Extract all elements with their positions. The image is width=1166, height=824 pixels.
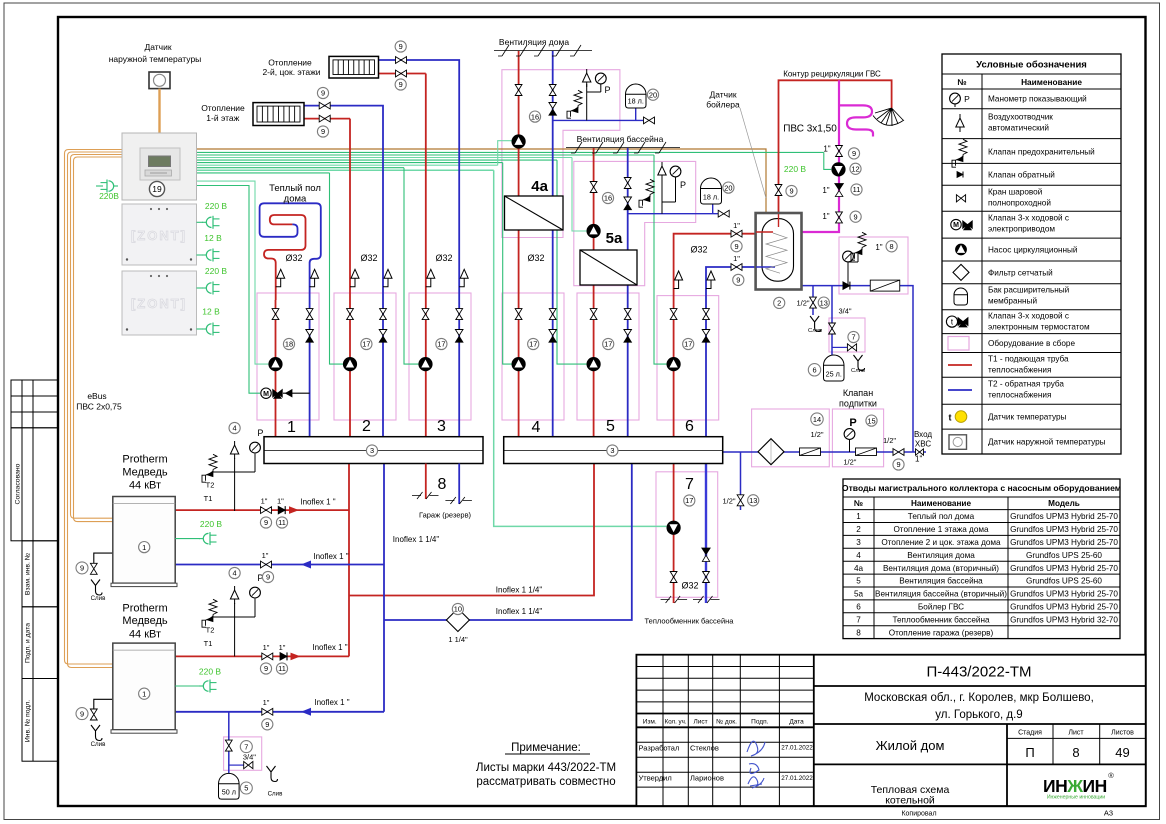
svg-text:№ док.: № док. xyxy=(716,719,737,726)
vent pool 5a assembly box xyxy=(574,161,696,285)
legend icon Т2 xyxy=(948,389,972,391)
check valve branch 6 xyxy=(702,330,710,336)
drain valve 4a xyxy=(644,117,655,124)
valve boiler feed 3/4 xyxy=(829,323,836,334)
svg-text:№: № xyxy=(854,499,863,508)
pipe make-up line to collector xyxy=(723,451,926,453)
svg-text:4а: 4а xyxy=(854,564,864,573)
svg-text:Бак расширительный: Бак расширительный xyxy=(988,286,1069,295)
svg-text:5: 5 xyxy=(856,577,861,586)
pipe T1 vent house secondary xyxy=(518,51,520,196)
svg-text:1: 1 xyxy=(856,512,861,521)
branch 4 assembly box xyxy=(502,293,564,420)
svg-text:Московская обл., г. Королев, м: Московская обл., г. Королев, мкр Болшево… xyxy=(864,692,1094,704)
pipe T2 branch 7 riser pool heat exchanger xyxy=(705,464,707,604)
branch 7 assembly box xyxy=(656,472,718,598)
valve on branch 5 supply xyxy=(590,309,597,320)
svg-text:4: 4 xyxy=(233,569,237,578)
svg-text:50 л: 50 л xyxy=(222,788,236,797)
svg-text:1": 1" xyxy=(915,455,922,464)
pipe cold water boiler feed xyxy=(782,286,913,452)
svg-text:9: 9 xyxy=(854,212,858,221)
green wire to boiler 1 plug xyxy=(96,185,103,187)
svg-text:220 В: 220 В xyxy=(784,164,807,174)
svg-text:Утвердил: Утвердил xyxy=(639,774,672,783)
valve on branch 6 supply xyxy=(670,309,677,320)
valve boiler hot in xyxy=(731,230,742,237)
svg-text:Воздухоотводчик: Воздухоотводчик xyxy=(988,113,1053,122)
svg-text:t: t xyxy=(949,413,952,423)
pipe make-up drain with valve 13 xyxy=(740,452,742,510)
valve on branch 4 supply xyxy=(515,309,522,320)
svg-text:бойлера: бойлера xyxy=(706,100,740,110)
storage tank 50l xyxy=(219,773,240,799)
svg-text:Отводы магистрального коллекто: Отводы магистрального коллектора с насос… xyxy=(842,483,1121,493)
valve on branch 3 return xyxy=(456,309,463,320)
svg-text:1/2": 1/2" xyxy=(722,496,735,505)
svg-text:7: 7 xyxy=(851,333,855,342)
svg-text:Inoflex 1 ": Inoflex 1 " xyxy=(313,552,348,561)
svg-text:Датчик температуры: Датчик температуры xyxy=(988,413,1067,422)
svg-text:Взам. инв. №: Взам. инв. № xyxy=(25,553,32,595)
svg-text:Вентиляция бассейна: Вентиляция бассейна xyxy=(899,577,983,586)
svg-text:автоматический: автоматический xyxy=(988,124,1049,133)
pipe T2 vent pool secondary xyxy=(627,148,629,250)
svg-text:Ø32: Ø32 xyxy=(360,253,377,263)
boiler 2 drain valve xyxy=(90,709,97,720)
pipe T1 boiler supply riser xyxy=(348,464,350,657)
svg-text:ул. Горького, д.9: ул. Горького, д.9 xyxy=(935,709,1022,721)
valve boiler return out xyxy=(731,264,742,271)
svg-text:Листов: Листов xyxy=(1111,730,1134,737)
pipe T1 boiler 2 supply xyxy=(175,655,349,657)
svg-text:Теплый пол: Теплый пол xyxy=(269,183,321,194)
svg-text:Т1: Т1 xyxy=(204,639,213,648)
svg-text:17: 17 xyxy=(529,340,537,349)
svg-text:Датчик наружной температуры: Датчик наружной температуры xyxy=(988,438,1106,447)
pump branch 5 xyxy=(587,358,600,371)
green wire drop to pump 12 xyxy=(824,152,831,169)
svg-text:®: ® xyxy=(1108,771,1114,780)
svg-text:19: 19 xyxy=(152,184,162,194)
svg-text:Grundfos UPM3 Hybrid 25-70: Grundfos UPM3 Hybrid 25-70 xyxy=(1010,538,1118,547)
pipe T2 floor heating coil xyxy=(260,203,321,300)
branch 3 assembly box xyxy=(409,293,471,420)
legend icon клапан обратный xyxy=(957,172,963,178)
legend icon бак расширительный xyxy=(954,288,968,305)
collector bar left xyxy=(264,437,483,464)
vent house duct symbol xyxy=(494,50,592,52)
expansion tank 25l xyxy=(824,355,845,381)
check valve 4a xyxy=(549,103,557,109)
svg-text:Стеклов: Стеклов xyxy=(690,744,719,753)
svg-text:подпитки: подпитки xyxy=(839,399,877,409)
svg-text:4: 4 xyxy=(233,424,237,433)
valve on branch 3 supply xyxy=(422,309,429,320)
branch 7 internals xyxy=(667,521,680,534)
svg-text:Бойлер ГВС: Бойлер ГВС xyxy=(918,603,964,612)
pipe T1 radiator 2nd floor supply xyxy=(379,73,426,75)
svg-text:17: 17 xyxy=(362,340,370,349)
branch 1 assembly box xyxy=(257,293,319,420)
pipe T1 branch 6 riser to DHW boiler xyxy=(674,234,756,437)
svg-text:10: 10 xyxy=(454,605,462,614)
valve 4a return xyxy=(549,85,556,96)
svg-text:Клапан: Клапан xyxy=(843,388,873,398)
svg-text:Protherm: Protherm xyxy=(122,454,167,466)
check valve branch 1 xyxy=(306,330,314,336)
valve boiler 2 return xyxy=(262,708,273,715)
svg-text:11: 11 xyxy=(278,518,286,527)
svg-text:1/2": 1/2" xyxy=(843,458,856,467)
svg-text:Grundfos UPM3 Hybrid 25-70: Grundfos UPM3 Hybrid 25-70 xyxy=(1010,603,1118,612)
svg-text:8: 8 xyxy=(1072,745,1079,760)
heat exchanger 4a xyxy=(505,196,564,230)
svg-text:Клапан обратный: Клапан обратный xyxy=(988,171,1055,180)
flow arrows branch 6 xyxy=(675,271,683,280)
svg-text:P: P xyxy=(604,85,610,95)
svg-text:9: 9 xyxy=(80,709,84,718)
svg-text:Лист: Лист xyxy=(1068,730,1084,737)
safety group boiler 2 xyxy=(234,603,236,656)
make-up filter group 14 box xyxy=(752,409,830,467)
svg-text:Вентиляция дома: Вентиляция дома xyxy=(499,37,569,47)
svg-text:1": 1" xyxy=(823,145,830,154)
svg-text:наружной температуры: наружной температуры xyxy=(109,54,202,64)
svg-text:электроприводом: электроприводом xyxy=(988,225,1055,234)
svg-text:П-443/2022-ТМ: П-443/2022-ТМ xyxy=(927,664,1032,681)
drain group on boiler 2 return xyxy=(228,712,230,774)
vent house 4a assembly box xyxy=(502,70,620,238)
valve on branch 1 return xyxy=(306,309,313,320)
svg-text:1": 1" xyxy=(822,186,829,195)
svg-text:220В: 220В xyxy=(99,191,119,201)
branch 6 assembly box xyxy=(657,296,719,420)
DHW boiler tank xyxy=(756,213,802,290)
3-way valve with drive branch 1 xyxy=(261,388,271,398)
legend icon клапан предохранительный xyxy=(959,139,967,157)
svg-text:Ø32: Ø32 xyxy=(681,581,698,591)
svg-text:2: 2 xyxy=(856,525,861,534)
svg-text:ХВС: ХВС xyxy=(915,440,931,449)
svg-text:теплоснабжения: теплоснабжения xyxy=(988,366,1051,375)
svg-text:M: M xyxy=(953,222,959,229)
valve on branch 1 supply xyxy=(272,309,279,320)
svg-text:7: 7 xyxy=(856,615,861,624)
svg-text:Отопление гаража (резерв): Отопление гаража (резерв) xyxy=(889,628,994,637)
pipe T2 branch 6 riser to DHW boiler xyxy=(706,267,756,437)
svg-text:1": 1" xyxy=(733,254,740,263)
svg-text:Оборудование в сборе: Оборудование в сборе xyxy=(988,339,1075,348)
svg-text:12 В: 12 В xyxy=(202,307,220,317)
svg-text:220 В: 220 В xyxy=(200,519,223,529)
svg-text:Отопление 1 этажа дома: Отопление 1 этажа дома xyxy=(893,525,989,534)
svg-text:16: 16 xyxy=(531,112,539,121)
valve DHW top xyxy=(836,146,843,157)
legend icon оборудование в сборе xyxy=(948,337,969,351)
svg-text:Ø32: Ø32 xyxy=(690,245,707,255)
pipe 4a expansion line xyxy=(553,119,644,121)
svg-text:8: 8 xyxy=(856,628,861,637)
collector bar right xyxy=(504,437,723,464)
svg-text:1: 1 xyxy=(142,543,146,552)
pipe T2 branch 5 riser xyxy=(627,285,629,437)
svg-text:5а: 5а xyxy=(854,590,864,599)
legend icon датчик наружной температуры xyxy=(949,435,967,450)
drain valve group 7 box xyxy=(224,737,262,770)
svg-text:14: 14 xyxy=(813,415,821,424)
svg-text:4: 4 xyxy=(856,551,861,560)
make-up gauge group 15 xyxy=(849,440,851,452)
filter 10 on return xyxy=(446,609,469,632)
svg-text:1-й этаж: 1-й этаж xyxy=(206,113,239,123)
svg-text:ПВС 3х1,50: ПВС 3х1,50 xyxy=(783,124,837,135)
boiler 2 drain pipe xyxy=(94,699,113,709)
safety group boiler 1 xyxy=(234,458,236,511)
pipe T2 radiator 2nd floor return xyxy=(379,60,460,437)
svg-text:12 В: 12 В xyxy=(204,233,222,243)
expansion tank 18l vent house xyxy=(626,84,647,108)
svg-text:25 л.: 25 л. xyxy=(826,370,842,379)
pipe T2 vent house secondary xyxy=(552,51,554,196)
svg-text:4a: 4a xyxy=(531,178,548,195)
svg-text:Манометр показывающий: Манометр показывающий xyxy=(988,95,1087,104)
sensor circle 16 vent pool xyxy=(602,192,613,203)
svg-text:Grundfos UPM3 Hybrid 25-70: Grundfos UPM3 Hybrid 25-70 xyxy=(1010,590,1118,599)
svg-text:9: 9 xyxy=(264,518,268,527)
svg-text:Т2: Т2 xyxy=(206,626,215,635)
pipe T1 branch 4 riser xyxy=(518,230,520,437)
svg-text:49: 49 xyxy=(1115,745,1129,760)
svg-text:ИНЖИН: ИНЖИН xyxy=(1043,776,1107,796)
green wire drop to pump 3 xyxy=(404,168,419,364)
svg-text:теплоснабжения: теплоснабжения xyxy=(988,391,1051,400)
svg-text:Кран шаровой: Кран шаровой xyxy=(988,188,1042,197)
pump branch 3 xyxy=(419,358,432,371)
pipe T1 floor heating coil xyxy=(264,215,306,300)
svg-text:1": 1" xyxy=(279,643,286,652)
svg-text:P: P xyxy=(964,94,970,104)
green wire drop to pump 5a xyxy=(572,158,587,232)
pipe T2 boiler 1 return xyxy=(175,564,384,566)
svg-text:11: 11 xyxy=(278,664,286,673)
svg-text:[ZONT]: [ZONT] xyxy=(131,228,187,243)
svg-text:дома: дома xyxy=(284,194,307,205)
svg-text:Теплообменник бассейна: Теплообменник бассейна xyxy=(645,617,735,626)
legend icon клапан 3-х ходовой с электроприводом xyxy=(951,219,961,229)
svg-text:P: P xyxy=(257,428,263,438)
svg-text:Вентиляция бассейна (вторичный: Вентиляция бассейна (вторичный) xyxy=(875,590,1007,599)
svg-text:Inoflex 1 ": Inoflex 1 " xyxy=(314,698,349,707)
svg-text:8: 8 xyxy=(890,242,894,251)
svg-text:13: 13 xyxy=(820,298,828,307)
svg-text:Модель: Модель xyxy=(1048,499,1080,508)
svg-text:1": 1" xyxy=(261,497,268,506)
svg-text:1": 1" xyxy=(875,243,882,252)
heating cable loop ПВС xyxy=(839,105,873,136)
green wire drop to pump 7 xyxy=(494,170,667,526)
svg-text:[ZONT]: [ZONT] xyxy=(131,296,187,311)
svg-text:1": 1" xyxy=(733,221,740,230)
svg-text:Вентиляция бассейна: Вентиляция бассейна xyxy=(577,134,664,144)
svg-text:9: 9 xyxy=(399,42,403,51)
pipe DHW recirculation magenta xyxy=(802,80,840,232)
check valve 5a xyxy=(624,197,632,203)
make-up water filters xyxy=(758,439,784,465)
svg-text:Ø32: Ø32 xyxy=(285,253,302,263)
boiler sensor leader line xyxy=(740,108,766,198)
vent pool duct symbol xyxy=(566,147,680,149)
signatures xyxy=(747,741,765,773)
svg-text:9: 9 xyxy=(264,664,268,673)
svg-text:Согласовано: Согласовано xyxy=(15,463,22,504)
svg-text:5: 5 xyxy=(244,784,248,793)
make-up gauge group 15 box xyxy=(832,409,883,467)
valve radiator 1 return xyxy=(319,102,330,109)
sensor circle 17 branch 6 xyxy=(683,338,694,349)
green wire drop to pump 6 xyxy=(654,155,667,364)
svg-text:Т2: Т2 xyxy=(206,481,215,490)
svg-text:16: 16 xyxy=(604,194,612,203)
svg-text:Подп. и дата: Подп. и дата xyxy=(25,623,32,663)
svg-text:Отопление 2 и цок. этажа дома: Отопление 2 и цок. этажа дома xyxy=(881,538,1001,547)
svg-text:3/4": 3/4" xyxy=(838,307,851,316)
svg-text:9: 9 xyxy=(321,127,325,136)
valve DHW bottom xyxy=(836,212,843,223)
valve on branch 2 supply xyxy=(347,309,354,320)
green control wiring bundle xyxy=(197,151,824,153)
svg-text:18 л.: 18 л. xyxy=(628,97,644,106)
legend icon фильтр сетчатый xyxy=(953,264,969,280)
safety group 4a xyxy=(586,84,588,120)
svg-text:27.01.2022: 27.01.2022 xyxy=(781,775,813,782)
svg-text:Grundfos UPM3 Hybrid 25-70: Grundfos UPM3 Hybrid 25-70 xyxy=(1010,564,1118,573)
cold water inlet group 8 box xyxy=(839,237,908,294)
svg-text:1/2": 1/2" xyxy=(810,430,823,439)
svg-text:Копировал: Копировал xyxy=(901,811,936,818)
svg-text:Дата: Дата xyxy=(789,719,804,726)
valve boiler 2 supply xyxy=(262,653,273,660)
pipe boiler drain with valve 13 xyxy=(812,286,814,315)
svg-text:полнопроходной: полнопроходной xyxy=(988,199,1051,208)
svg-text:Grundfos UPS 25-60: Grundfos UPS 25-60 xyxy=(1026,551,1102,560)
svg-text:Примечание:: Примечание: xyxy=(511,742,581,754)
svg-text:П: П xyxy=(1025,745,1034,760)
orange eBus cable bundle to boilers xyxy=(65,150,123,665)
svg-text:Листы марки 443/2022-ТМ: Листы марки 443/2022-ТМ xyxy=(476,762,616,774)
flow arrows branch 3 xyxy=(427,269,435,278)
legend table Условные обозначения xyxy=(942,54,1121,454)
svg-text:Инженерные инновации: Инженерные инновации xyxy=(1047,795,1105,801)
sensor circle 17 branch 2 xyxy=(361,338,372,349)
svg-text:1": 1" xyxy=(263,698,270,707)
svg-text:Клапан предохранительный: Клапан предохранительный xyxy=(988,148,1095,157)
sensor wire xyxy=(158,89,160,133)
svg-text:8: 8 xyxy=(438,476,447,493)
svg-text:7: 7 xyxy=(685,476,694,493)
pump 5a xyxy=(587,224,600,237)
legend icon кран шаровой xyxy=(956,195,965,202)
svg-text:11: 11 xyxy=(853,185,861,194)
svg-text:Inoflex 1 ": Inoflex 1 " xyxy=(300,498,335,507)
valve on boiler hot outlet riser xyxy=(775,185,782,196)
branch 8 garage reserve pipes xyxy=(425,464,427,500)
pipe 5a expansion line xyxy=(628,213,720,215)
svg-text:Вентиляция дома: Вентиляция дома xyxy=(907,551,975,560)
svg-text:Inoflex 1 ": Inoflex 1 " xyxy=(312,643,347,652)
valve on branch 4 return xyxy=(549,309,556,320)
svg-text:Медведь: Медведь xyxy=(122,615,168,627)
boiler 1 drain valve xyxy=(90,563,97,574)
svg-text:13: 13 xyxy=(749,496,757,505)
svg-text:Inoflex 1 1/4": Inoflex 1 1/4" xyxy=(393,535,440,544)
boiler feed valve 7 box xyxy=(829,318,865,352)
svg-text:5a: 5a xyxy=(606,230,623,247)
svg-text:7: 7 xyxy=(244,742,248,751)
svg-text:1: 1 xyxy=(287,419,296,436)
svg-text:Ларионов: Ларионов xyxy=(690,774,724,783)
legend icon манометр xyxy=(950,93,961,104)
svg-text:мембранный: мембранный xyxy=(988,297,1037,306)
check valve branch 2 xyxy=(379,330,387,336)
pipe T2 branch 4 riser xyxy=(552,230,554,437)
sensor circle 17 branch 5 xyxy=(603,338,614,349)
svg-text:5: 5 xyxy=(606,418,615,435)
svg-text:3: 3 xyxy=(437,418,446,435)
svg-text:Теплообменник бассейна: Теплообменник бассейна xyxy=(892,615,990,624)
green wire drop to pump 4a xyxy=(498,141,512,166)
green wire drop to pump 5 xyxy=(557,160,587,364)
pipe T1 branch 1 riser xyxy=(275,300,277,437)
svg-text:Условные обозначения: Условные обозначения xyxy=(976,60,1087,71)
svg-text:20: 20 xyxy=(724,183,732,192)
svg-text:Слив: Слив xyxy=(268,791,284,798)
svg-text:9: 9 xyxy=(399,80,403,89)
svg-text:А3: А3 xyxy=(1104,809,1113,818)
svg-text:Grundfos UPM3 Hybrid 32-70: Grundfos UPM3 Hybrid 32-70 xyxy=(1010,615,1118,624)
svg-text:1 1/4": 1 1/4" xyxy=(448,635,468,644)
sensor circle 17 branch 3 xyxy=(436,338,447,349)
valve radiator 1 supply xyxy=(319,115,330,122)
svg-text:2-й, цок. этажи: 2-й, цок. этажи xyxy=(262,67,320,77)
svg-text:Grundfos UPM3 Hybrid 25-70: Grundfos UPM3 Hybrid 25-70 xyxy=(1010,512,1118,521)
pipe to expansion tank 25l xyxy=(831,286,833,356)
svg-text:18 л.: 18 л. xyxy=(703,193,719,202)
valve 5a return xyxy=(624,178,631,189)
svg-text:Т1: Т1 xyxy=(204,494,213,503)
svg-text:17: 17 xyxy=(604,340,612,349)
pump 12 DHW recirculation xyxy=(832,163,845,176)
shower spray symbol xyxy=(875,108,903,126)
svg-text:44 кВт: 44 кВт xyxy=(129,628,161,640)
valve on branch 5 return xyxy=(624,309,631,320)
svg-text:17: 17 xyxy=(684,340,692,349)
svg-text:Жилой дом: Жилой дом xyxy=(876,738,945,753)
svg-text:Гараж (резерв): Гараж (резерв) xyxy=(419,511,472,520)
svg-text:Protherm: Protherm xyxy=(122,602,167,614)
legend icon воздухоотводчик xyxy=(959,114,961,118)
valve 13 boiler drain xyxy=(810,297,817,308)
svg-text:Датчик: Датчик xyxy=(144,42,171,52)
svg-text:Ø32: Ø32 xyxy=(435,253,452,263)
green wire drop to pump 4 xyxy=(503,163,512,365)
svg-text:3/4": 3/4" xyxy=(243,753,256,762)
svg-text:Наименование: Наименование xyxy=(911,499,972,508)
title block xyxy=(636,655,1145,806)
svg-text:12: 12 xyxy=(851,164,859,173)
svg-text:Вентиляция дома (вторичный): Вентиляция дома (вторичный) xyxy=(883,564,999,573)
svg-text:1": 1" xyxy=(277,497,284,506)
